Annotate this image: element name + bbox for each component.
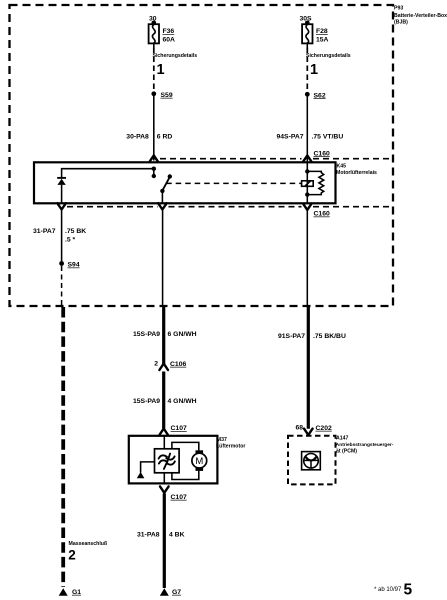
svg-text:S59: S59 (161, 92, 173, 99)
svg-text:4 BK: 4 BK (169, 532, 185, 539)
wire fan box to motor (top loop) (172, 442, 199, 450)
junction dot top of F28 (305, 21, 310, 26)
svg-text:Motorlüfterrelais: Motorlüfterrelais (336, 170, 377, 176)
internal dashed bus line below relay box (right) (313, 206, 393, 208)
svg-text:91S-PA7: 91S-PA7 (278, 333, 305, 340)
fuse F36 (149, 24, 175, 43)
svg-text:.75 VT/BU: .75 VT/BU (312, 133, 344, 140)
svg-text:5: 5 (404, 582, 413, 599)
coil branch junction bottom (305, 192, 309, 196)
wire relay to P93 edge (fan feed) (162, 210, 164, 307)
PCM module icon (302, 452, 321, 470)
svg-text:A147: A147 (336, 436, 349, 442)
K45 label (336, 164, 377, 176)
P93 label (394, 6, 447, 26)
svg-text:M: M (195, 456, 203, 467)
wire relay to P93 edge (PCM leg) (306, 210, 308, 306)
svg-text:F36: F36 (163, 28, 175, 35)
relay contact arm (168, 174, 172, 178)
wire through fan box down (163, 473, 165, 484)
dashed wire below F36 (153, 48, 155, 92)
thick wire to C202 (307, 306, 310, 429)
svg-text:M37: M37 (217, 437, 227, 443)
svg-text:68: 68 (296, 424, 304, 431)
PCM A147 dashed box (288, 436, 336, 485)
svg-text:30-PA8: 30-PA8 (126, 133, 149, 140)
svg-text:* ab 10/97: * ab 10/97 (374, 587, 402, 593)
fuse F28 (302, 24, 328, 43)
connector C107 arrow (top) (159, 429, 168, 435)
svg-text:Masseanschluß: Masseanschluß (69, 541, 108, 547)
svg-text:15S-PA9: 15S-PA9 (133, 398, 160, 405)
internal dashed bus line below relay box (mid) (169, 206, 302, 208)
svg-text:6 RD: 6 RD (157, 133, 173, 140)
connector C107 arrow (bottom) (160, 486, 169, 492)
arrow out of relay box bottom (coil leg) (303, 204, 312, 210)
dashed wire below F28 (306, 48, 308, 93)
wire stub below F28 (306, 43, 308, 47)
dashed wire S94 to box edge (61, 266, 63, 305)
mechanical linkage dashed (166, 182, 301, 184)
relay internal feed wire junction (152, 167, 156, 171)
arrow out of relay box bottom (diode leg) (57, 203, 66, 209)
arrow into relay box top (right) (303, 155, 312, 161)
coil wire overlay through symbol (306, 181, 308, 187)
svg-text:1: 1 (310, 62, 318, 78)
svg-text:S62: S62 (314, 92, 326, 99)
ground G7 (160, 588, 169, 596)
svg-text:Sicherungsdetails: Sicherungsdetails (153, 53, 198, 59)
svg-text:1: 1 (157, 62, 165, 78)
svg-text:Batterie-Verteiler-Box: Batterie-Verteiler-Box (394, 13, 447, 19)
svg-text:G1: G1 (72, 589, 81, 596)
thick dashed ground wire to G1 (61, 307, 65, 587)
fan icon (159, 454, 175, 469)
svg-text:C160: C160 (314, 150, 330, 157)
thick ground wire to G7 (163, 494, 166, 589)
svg-text:C160: C160 (314, 211, 330, 218)
splice S94 (59, 261, 64, 266)
relay K45 box (34, 162, 336, 203)
wire S59 to relay box (153, 94, 155, 161)
internal dashed bus line below relay box (67, 206, 158, 208)
svg-text:K45: K45 (337, 164, 347, 170)
wire stub below F36 (153, 43, 155, 47)
svg-text:94S-PA7: 94S-PA7 (277, 133, 304, 140)
svg-text:4 GN/WH: 4 GN/WH (168, 398, 197, 405)
svg-text:31-PA7: 31-PA7 (33, 228, 56, 235)
svg-text:F28: F28 (316, 28, 328, 35)
svg-text:15A: 15A (316, 36, 329, 43)
wire S62 to relay box (306, 94, 308, 160)
svg-text:C202: C202 (316, 425, 332, 432)
splice S62 (305, 92, 310, 97)
A147 label (336, 436, 394, 455)
svg-text:.75 BK/BU: .75 BK/BU (313, 333, 346, 340)
wire contact to box bottom (161, 191, 163, 203)
resistor branch (zigzag) (307, 171, 323, 194)
svg-text:Sicherungsdetails: Sicherungsdetails (306, 53, 351, 59)
svg-text:6 GN/WH: 6 GN/WH (168, 331, 197, 338)
splice S59 (151, 91, 156, 96)
svg-text:2: 2 (154, 360, 158, 367)
svg-text:.5 *: .5 * (65, 236, 76, 243)
connector C106 arrow (159, 364, 168, 370)
svg-text:31-PA8: 31-PA8 (137, 532, 160, 539)
coil branch junction top (305, 169, 309, 173)
P93 battery junction box dashed boundary (10, 5, 394, 306)
ground G1 (59, 588, 68, 596)
relay coil symbol (302, 181, 314, 187)
internal dashed bus line above relay box (right part) (313, 158, 393, 160)
svg-text:ät (PCM): ät (PCM) (336, 449, 357, 455)
internal wire to diode (62, 169, 154, 178)
svg-text:C107: C107 (171, 425, 187, 432)
svg-text:P93: P93 (394, 6, 403, 12)
svg-text:(BJB): (BJB) (394, 20, 408, 26)
motor M circle (192, 453, 207, 468)
internal dashed bus line above relay box (160, 158, 302, 160)
thick wire C106 to C107 (162, 372, 165, 429)
junction dot top of F36 (152, 21, 157, 26)
motor brush bottom (196, 468, 204, 471)
M37 label (216, 437, 245, 449)
wire diode to box bottom (61, 185, 63, 203)
connector C202 arrow (304, 429, 313, 435)
wire into fan box (163, 436, 165, 449)
svg-text:Lüftermotor: Lüftermotor (216, 443, 245, 449)
motor M37 box (129, 436, 218, 484)
arrow out of relay box bottom (contact leg) (158, 203, 167, 209)
svg-text:2: 2 (68, 547, 76, 562)
svg-text:G7: G7 (172, 589, 181, 596)
svg-text:S94: S94 (68, 262, 80, 269)
thick wire to C106 (162, 306, 165, 364)
relay coil feed wire (306, 161, 308, 204)
svg-text:Antriebsstrangsteuerger-: Antriebsstrangsteuerger- (336, 442, 394, 448)
arrow into relay box top (left) (150, 155, 159, 161)
motor brush top (196, 450, 204, 453)
fan resistor box (155, 449, 180, 473)
wire relay to S94 (61, 210, 63, 264)
diode (suppression) (57, 178, 66, 185)
svg-text:C106: C106 (170, 361, 186, 368)
svg-text:C107: C107 (171, 494, 187, 501)
svg-text:60A: 60A (163, 36, 176, 43)
svg-text:15S-PA9: 15S-PA9 (133, 331, 160, 338)
internal ground branch (141, 462, 155, 473)
switch fixed contact (153, 169, 155, 176)
internal ground symbol (137, 472, 145, 478)
svg-text:.75 BK: .75 BK (65, 228, 86, 235)
wire motor to fan box (bottom loop) (172, 471, 199, 480)
